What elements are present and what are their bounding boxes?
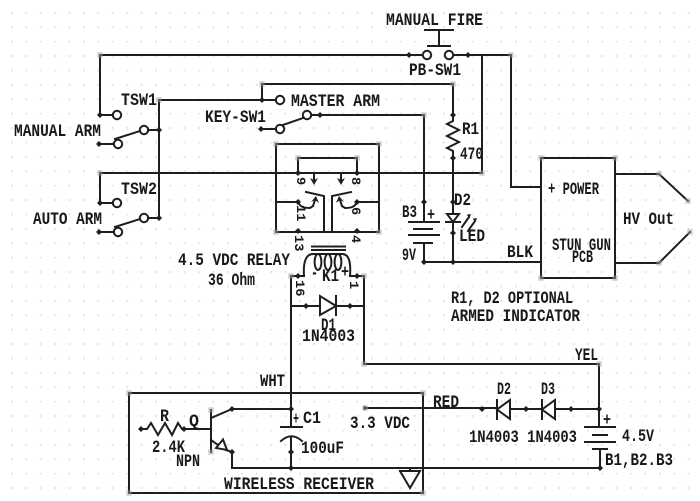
- svg-text:6: 6: [348, 207, 363, 215]
- wire: commons to MASTER ARM contact: [159, 99, 276, 101]
- junction: TSW2 bottom pin end: [96, 229, 102, 235]
- relay pin 6 hook and arrow: [342, 202, 357, 208]
- junction: D1 anode pin: [303, 303, 309, 309]
- switch TSW2 blade: [115, 219, 140, 227]
- HV Out upper lead: [615, 174, 688, 201]
- junction: LED anode pin: [450, 199, 456, 205]
- junction: battery negative pin: [597, 465, 603, 471]
- transistor Q1 base bar: [210, 410, 212, 452]
- svg-text:3.3 VDC: 3.3 VDC: [350, 414, 410, 434]
- wire: 3.3 VDC output (RED): [365, 407, 497, 409]
- wire BLK: B3 negative to stun gun PCB: [424, 261, 541, 263]
- junction: R left pin end: [138, 426, 144, 432]
- resistor R1: [447, 115, 459, 158]
- svg-text:ARMED INDICATOR: ARMED INDICATOR: [451, 307, 580, 327]
- svg-text:RED: RED: [433, 393, 459, 413]
- junction: KEY-SW1 bottom pin end: [258, 126, 264, 132]
- switch KEY-SW1 top contact (MASTER ARM): [276, 96, 284, 104]
- switch TSW1 blade: [115, 131, 140, 139]
- svg-text:36 Ohm: 36 Ohm: [208, 271, 255, 291]
- capacitor C1 top plate: [281, 426, 302, 428]
- svg-text:-: -: [311, 264, 318, 284]
- svg-text:+ POWER: + POWER: [548, 180, 599, 200]
- transistor Q1 emitter with arrow: [211, 440, 218, 445]
- junction: PB-SW1 left pin: [406, 52, 412, 58]
- wire: PB-SW1 output to +POWER input: [454, 55, 541, 187]
- diode D2 (dropper): [497, 400, 510, 419]
- relay K1 pins 9-8 staple: [298, 158, 357, 173]
- wire: D1 loop right vertical (to YEL): [363, 276, 365, 306]
- svg-text:8: 8: [348, 177, 363, 185]
- wire: D1 cathode lead: [336, 305, 364, 307]
- svg-text:MASTER ARM: MASTER ARM: [291, 92, 380, 112]
- svg-text:B3: B3: [402, 203, 417, 223]
- wire: TSW2 bottom contact stub: [99, 231, 114, 233]
- wire: LED cathode to BLK bus: [452, 222, 454, 262]
- junction: LED cathode pin: [450, 230, 456, 236]
- relay right pole blade: [332, 192, 351, 231]
- wire: TSW2 top riser: [99, 173, 101, 203]
- ground rail: [232, 467, 600, 469]
- junction: TSW2 common to riser: [156, 215, 162, 221]
- svg-text:9V: 9V: [402, 246, 416, 266]
- svg-text:+: +: [341, 263, 349, 283]
- HV Out lower lead: [615, 232, 690, 263]
- switch KEY-SW1 bottom contact: [276, 125, 284, 133]
- junction: R right pin end: [181, 426, 187, 432]
- svg-text:WIRELESS RECEIVER: WIRELESS RECEIVER: [224, 475, 374, 495]
- junction: R1 top pin: [450, 112, 456, 118]
- svg-text:PCB: PCB: [572, 248, 593, 268]
- svg-text:4: 4: [348, 235, 363, 243]
- switch TSW1 common contact: [140, 126, 148, 134]
- svg-text:YEL: YEL: [575, 346, 598, 366]
- svg-text:K1: K1: [322, 267, 339, 287]
- svg-text:1: 1: [346, 281, 361, 289]
- LED D2 symbol: [446, 214, 460, 222]
- wire: KEY-SW1 output to battery B3 positive: [311, 115, 424, 222]
- junction: relay pin 16: [295, 273, 301, 279]
- wire: D1 anode lead: [291, 305, 320, 307]
- svg-text:D2: D2: [497, 380, 511, 400]
- svg-text:4.5V: 4.5V: [622, 427, 654, 447]
- svg-text:HV Out: HV Out: [623, 210, 674, 230]
- junction: relay pin 13: [295, 228, 301, 234]
- switch TSW2 bottom contact: [114, 228, 122, 236]
- ground symbol: [400, 468, 420, 488]
- relay contact arrow pin 9: [313, 175, 315, 181]
- junction: RED node: [479, 406, 485, 412]
- battery B3 plates: [409, 222, 439, 262]
- svg-text:470: 470: [460, 145, 483, 165]
- svg-text:TSW1: TSW1: [121, 91, 157, 111]
- wire: relay pin 11 stub: [277, 201, 298, 203]
- junction: collector pin: [229, 406, 235, 412]
- junction: master arm branch: [259, 97, 265, 103]
- svg-text:NPN: NPN: [176, 452, 200, 472]
- wire: D3 anode to battery positive: [555, 408, 599, 410]
- junction: PB-SW1 right pin: [465, 52, 471, 58]
- relay pin 11 hook and arrow: [298, 202, 313, 208]
- LED D2 light arrows: [462, 217, 475, 231]
- switch TSW1 common stub: [148, 129, 159, 131]
- junction: R1 bottom pin: [450, 155, 456, 161]
- switch TSW1 bottom contact: [114, 140, 122, 148]
- junction: relay pin 4: [354, 228, 360, 234]
- relay contact arrow pin 8: [340, 175, 342, 181]
- relay left pole blade: [306, 192, 324, 231]
- wire: D2 to D3: [510, 408, 542, 410]
- junction: KEY-SW1 output pin: [317, 112, 323, 118]
- resistor R: [141, 423, 211, 435]
- switch KEY-SW1 blade: [283, 118, 303, 125]
- junction: LED cathode to BLK bus: [450, 259, 456, 265]
- junction: relay pin 9: [295, 170, 301, 176]
- switch KEY-SW1 common contact: [303, 111, 311, 119]
- battery B1-B3 plates: [585, 427, 615, 468]
- switch TSW2 common contact: [140, 214, 148, 222]
- grip markers at wire corners: [97, 52, 102, 57]
- junction: D2-D3 node: [523, 406, 529, 412]
- junction: collector node on WHT: [288, 406, 294, 412]
- svg-text:R1: R1: [462, 120, 479, 140]
- svg-text:PB-SW1: PB-SW1: [409, 61, 461, 81]
- diode D1: [320, 296, 336, 315]
- svg-text:D3: D3: [541, 380, 555, 400]
- svg-text:WHT: WHT: [260, 372, 285, 392]
- svg-text:Q: Q: [189, 412, 199, 432]
- svg-text:MANUAL FIRE: MANUAL FIRE: [386, 11, 483, 31]
- wire: TSW1 bottom contact stub: [99, 143, 114, 145]
- junction: relay pin 11: [295, 199, 301, 205]
- switch TSW1 top contact stub: [100, 114, 113, 116]
- junction: relay pin 6: [354, 199, 360, 205]
- diode D3 (dropper): [542, 400, 555, 419]
- junction: emitter pin: [229, 449, 235, 455]
- svg-text:MANUAL ARM: MANUAL ARM: [14, 122, 101, 142]
- switch TSW1 top contact: [113, 111, 121, 119]
- junction: D3 anode pin: [568, 406, 574, 412]
- svg-text:C1: C1: [303, 409, 321, 429]
- wire: relay contact bus (TSW2/PB to relay pins 9-8): [100, 172, 482, 174]
- wire: PB-SW1 output down branch to contact bus: [481, 55, 483, 173]
- svg-text:1N4003: 1N4003: [302, 327, 355, 347]
- wire: relay pin 6 stub: [357, 201, 379, 203]
- svg-text:TSW2: TSW2: [121, 180, 157, 200]
- junction: C1 to ground rail: [288, 465, 294, 471]
- pushbutton PB-SW1 plunger: [425, 30, 453, 46]
- wire: KEY-SW1 bottom contact stub: [261, 128, 276, 130]
- wire: top bus to PB-SW1 left contact: [100, 55, 422, 115]
- svg-text:100uF: 100uF: [301, 439, 344, 459]
- transistor Q1 collector: [211, 409, 291, 418]
- svg-text:B1,B2.B3: B1,B2.B3: [605, 451, 673, 471]
- wire: coil pin 1 to D1 loop right: [350, 275, 364, 277]
- svg-text:+: +: [603, 411, 611, 431]
- switch TSW2 top contact: [113, 199, 121, 207]
- svg-text:4.5 VDC RELAY: 4.5 VDC RELAY: [178, 251, 290, 271]
- junction: battery feed node: [596, 406, 602, 412]
- wireless receiver box: [129, 393, 423, 493]
- wire: D1 loop left vertical (to WHT): [290, 276, 292, 306]
- pushbutton PB-SW1 contacts: [423, 51, 431, 59]
- wire: R1 to LED anode: [452, 158, 454, 214]
- svg-text:+: +: [293, 410, 299, 430]
- wire YEL: relay coil plus to battery positive: [364, 306, 599, 427]
- junction: D1 cathode pin: [347, 303, 353, 309]
- svg-text:R: R: [160, 407, 169, 427]
- wire: branch up and over to R1: [262, 84, 453, 115]
- wire: commons riser: [158, 100, 160, 218]
- svg-text:KEY-SW1: KEY-SW1: [205, 108, 266, 128]
- svg-text:BLK: BLK: [507, 243, 533, 263]
- junction: TSW2 top pin: [97, 200, 103, 206]
- capacitor C1 bottom curved plate: [281, 436, 302, 441]
- relay K1 contact block outline: [276, 144, 379, 232]
- svg-text:1N4003 1N4003: 1N4003 1N4003: [469, 428, 577, 448]
- svg-text:D2: D2: [454, 191, 471, 211]
- junction: 3.3VDC pin end: [363, 406, 368, 411]
- svg-text:13: 13: [291, 235, 306, 252]
- relay K1 coil core bars: [312, 247, 345, 251]
- switch TSW2 top contact stub: [100, 202, 113, 204]
- junction: B3 negative pin: [421, 259, 427, 265]
- stun gun PCB box: [541, 158, 615, 278]
- junction: TSW1 bottom pin end: [96, 141, 102, 147]
- svg-text:9: 9: [293, 177, 308, 185]
- svg-text:AUTO ARM: AUTO ARM: [33, 210, 102, 230]
- wire: C1 to ground rail: [290, 437, 292, 468]
- junction: relay pin 8: [354, 170, 360, 176]
- wire: coil pin 16 to D1 loop left: [291, 275, 304, 277]
- junction: relay pin 1: [354, 273, 360, 279]
- svg-text:LED: LED: [459, 227, 485, 247]
- svg-text:R1, D2 OPTIONAL: R1, D2 OPTIONAL: [451, 289, 573, 309]
- svg-text:16: 16: [292, 280, 307, 297]
- junction: TSW1 common to riser: [156, 127, 162, 133]
- junction: TSW1 top pin: [97, 112, 103, 118]
- junction: B3 positive pin: [421, 199, 427, 205]
- relay K1 coil winding: [304, 254, 350, 276]
- svg-text:+: +: [427, 206, 435, 226]
- wire WHT: relay coil minus to receiver: [290, 306, 292, 426]
- switch TSW2 common stub: [148, 217, 159, 219]
- junction: C1 bottom pin: [288, 449, 294, 455]
- svg-text:11: 11: [293, 205, 308, 222]
